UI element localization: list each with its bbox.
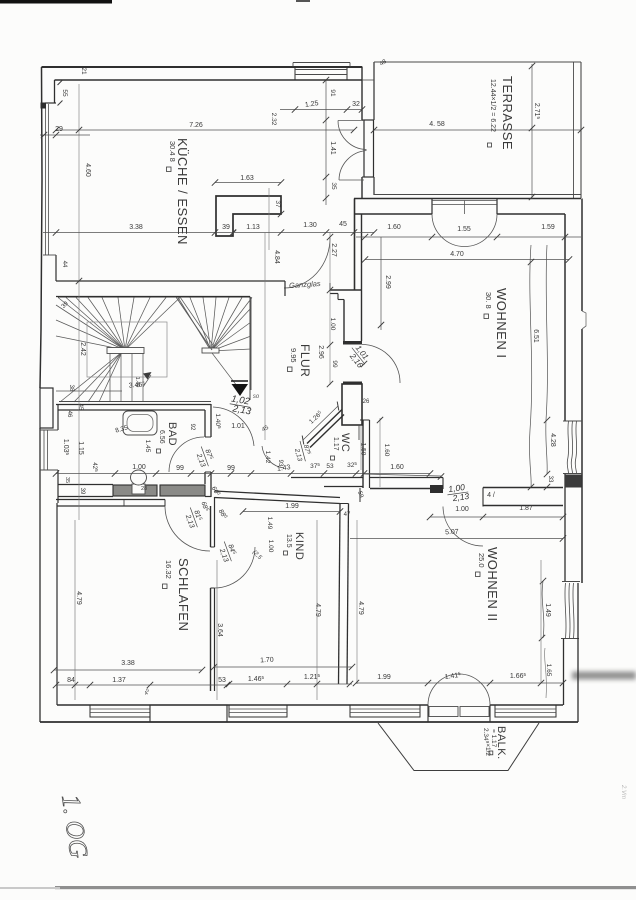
svg-text:4.60: 4.60	[84, 163, 91, 177]
svg-text:1.49: 1.49	[266, 517, 273, 530]
svg-text:30. 8: 30. 8	[484, 292, 493, 309]
svg-text:2.27: 2.27	[330, 243, 337, 257]
svg-text:53: 53	[218, 677, 226, 684]
svg-text:3.38: 3.38	[121, 660, 135, 667]
svg-text:99: 99	[331, 360, 338, 368]
svg-text:1.55: 1.55	[457, 226, 471, 233]
svg-text:53: 53	[326, 463, 334, 470]
svg-text:WOHNEN I: WOHNEN I	[494, 288, 509, 358]
svg-text:1.60: 1.60	[383, 444, 390, 457]
svg-text:29: 29	[55, 126, 63, 133]
svg-text:1.99: 1.99	[377, 674, 391, 681]
svg-text:1.37: 1.37	[112, 677, 126, 684]
svg-text:16.32: 16.32	[164, 560, 173, 579]
svg-text:4.79: 4.79	[357, 601, 364, 615]
svg-text:3.38: 3.38	[129, 224, 143, 231]
svg-text:30.4 8: 30.4 8	[168, 141, 177, 162]
svg-text:4. 58: 4. 58	[429, 121, 445, 128]
svg-text:1.00: 1.00	[455, 506, 469, 513]
svg-text:1.00: 1.00	[329, 318, 336, 331]
svg-text:WC: WC	[339, 433, 351, 452]
svg-text:47: 47	[344, 512, 351, 518]
svg-text:39: 39	[222, 224, 230, 231]
svg-text:45: 45	[339, 221, 347, 228]
svg-text:2.Vm: 2.Vm	[620, 784, 626, 799]
svg-text:SCHLAFEN: SCHLAFEN	[176, 558, 191, 631]
svg-text:1.87: 1.87	[519, 505, 533, 512]
svg-text:1.01: 1.01	[231, 423, 245, 430]
svg-text:2.96: 2.96	[317, 345, 324, 359]
svg-text:1.45: 1.45	[144, 440, 151, 453]
svg-text:37: 37	[274, 200, 281, 208]
svg-text:5.07: 5.07	[445, 529, 459, 537]
svg-text:KIND: KIND	[293, 532, 305, 560]
svg-text:46: 46	[66, 411, 72, 418]
svg-text:91: 91	[329, 89, 336, 97]
svg-text:1.00: 1.00	[267, 540, 274, 553]
svg-text:4.84: 4.84	[273, 250, 280, 264]
svg-text:33: 33	[547, 476, 553, 483]
svg-text:3.64: 3.64	[216, 623, 223, 637]
svg-text:6.56: 6.56	[158, 430, 165, 444]
svg-text:4.79: 4.79	[75, 591, 82, 605]
svg-text:1.00: 1.00	[132, 464, 146, 471]
svg-text:4 /: 4 /	[487, 492, 495, 499]
svg-text:38: 38	[68, 385, 74, 392]
svg-text:2.99: 2.99	[384, 275, 391, 289]
svg-text:1.70: 1.70	[260, 657, 274, 665]
svg-text:99: 99	[176, 465, 184, 472]
svg-text:35: 35	[330, 182, 337, 190]
svg-text:WOHNEN II: WOHNEN II	[485, 547, 500, 622]
svg-text:1.49: 1.49	[544, 603, 551, 617]
svg-text:4.70: 4.70	[450, 251, 464, 258]
svg-text:1.50: 1.50	[360, 443, 367, 456]
svg-text:FLUR: FLUR	[298, 344, 312, 377]
svg-text:1.42: 1.42	[264, 451, 271, 464]
svg-text:1.60: 1.60	[390, 464, 404, 471]
svg-text:4.79: 4.79	[314, 603, 321, 617]
svg-text:25.0: 25.0	[477, 553, 486, 568]
svg-text:TERRASSE: TERRASSE	[500, 76, 515, 150]
svg-text:99: 99	[227, 465, 235, 472]
svg-text:45: 45	[77, 404, 83, 411]
svg-text:so: so	[253, 394, 260, 400]
svg-text:BAD: BAD	[166, 422, 178, 446]
svg-text:39: 39	[79, 488, 85, 495]
svg-text:1.99: 1.99	[285, 503, 299, 510]
svg-text:1.17: 1.17	[332, 437, 339, 451]
svg-text:1.40: 1.40	[134, 377, 140, 388]
svg-text:1.59: 1.59	[541, 224, 555, 231]
svg-text:1.60: 1.60	[387, 224, 401, 231]
svg-text:1.13: 1.13	[246, 224, 260, 231]
svg-text:26: 26	[363, 399, 370, 405]
svg-text:= 1.17: = 1.17	[490, 729, 497, 748]
svg-text:55: 55	[61, 89, 68, 97]
svg-text:21: 21	[80, 67, 87, 75]
svg-text:84: 84	[67, 677, 75, 684]
svg-text:6.51: 6.51	[532, 329, 539, 343]
svg-text:1.30: 1.30	[303, 222, 317, 229]
svg-text:13.5: 13.5	[285, 534, 292, 548]
svg-text:93: 93	[277, 460, 283, 467]
svg-text:1.63: 1.63	[240, 175, 254, 182]
svg-text:7.26: 7.26	[189, 122, 203, 129]
svg-text:28: 28	[141, 486, 147, 492]
svg-text:4.28: 4.28	[549, 433, 556, 447]
svg-text:35: 35	[64, 477, 70, 483]
svg-text:12.44×1/2 = 6.22: 12.44×1/2 = 6.22	[489, 79, 496, 132]
svg-text:44: 44	[61, 261, 67, 268]
svg-text:1.41: 1.41	[329, 141, 336, 155]
svg-text:2.42: 2.42	[79, 342, 86, 356]
svg-text:92: 92	[189, 424, 195, 431]
svg-text:9.95: 9.95	[289, 348, 298, 363]
svg-text:2.32: 2.32	[270, 113, 277, 126]
svg-text:32: 32	[352, 101, 360, 108]
svg-text:1.15: 1.15	[77, 441, 84, 455]
svg-text:1.65: 1.65	[545, 664, 552, 677]
